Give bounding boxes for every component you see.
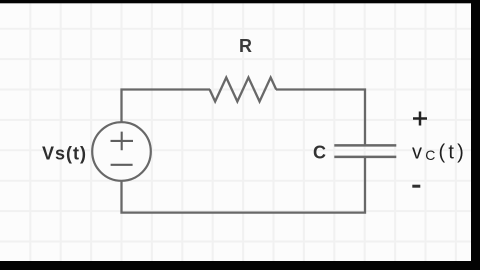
polarity plus sign [413,112,427,126]
svg-text:R: R [239,36,252,56]
wire: top-left from source to resistor [122,90,211,123]
voltage source Vs (circle with +/-) [92,122,151,181]
wire: top-right from resistor to capacitor [276,90,365,146]
svg-text:vC(t): vC(t) [412,142,467,164]
svg-text:C: C [313,143,326,163]
capacitor C bottom plate [334,156,396,159]
polarity minus sign [412,185,420,188]
svg-text:Vs(t): Vs(t) [42,144,87,164]
capacitor C top plate [334,144,396,147]
wire: bottom rail from capacitor to source [122,157,366,213]
resistor R (zigzag) [210,78,277,102]
